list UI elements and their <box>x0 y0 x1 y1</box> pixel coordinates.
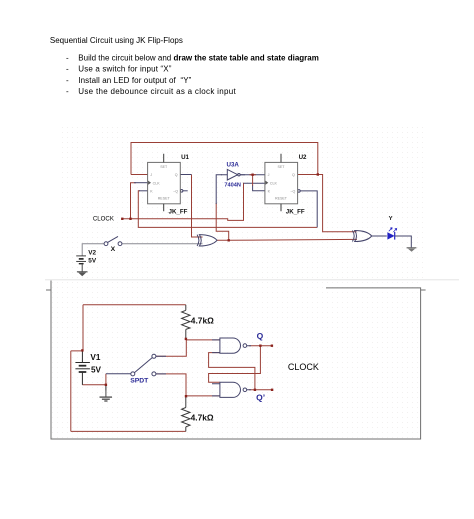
svg-text:JK_FF: JK_FF <box>286 208 305 215</box>
svg-text:SET: SET <box>278 165 286 169</box>
svg-text:JK_FF: JK_FF <box>169 208 188 215</box>
svg-text:5V: 5V <box>88 258 97 265</box>
svg-text:-: - <box>66 87 69 96</box>
svg-text:Use the debounce circuit as a: Use the debounce circuit as a clock inpu… <box>78 87 236 96</box>
svg-text:Use a switch for input “X”: Use a switch for input “X” <box>78 65 171 74</box>
svg-text:4.7kΩ: 4.7kΩ <box>191 315 214 325</box>
svg-text:U3A: U3A <box>227 162 240 169</box>
svg-text:-: - <box>66 53 69 62</box>
svg-text:X: X <box>111 246 116 253</box>
svg-text:~Q: ~Q <box>173 189 178 193</box>
svg-text:Y: Y <box>389 216 393 222</box>
svg-text:U2: U2 <box>299 154 307 161</box>
svg-text:5V: 5V <box>91 366 102 375</box>
svg-text:-: - <box>66 76 69 85</box>
svg-text:RESET: RESET <box>275 196 288 200</box>
svg-text:Q’: Q’ <box>256 393 265 403</box>
svg-text:CLOCK: CLOCK <box>93 216 114 223</box>
svg-text:CLOCK: CLOCK <box>288 362 319 372</box>
svg-text:J: J <box>268 173 270 177</box>
svg-text:J: J <box>150 173 152 177</box>
svg-text:Sequential Circuit using JK Fl: Sequential Circuit using JK Flip-Flops <box>50 36 183 45</box>
svg-text:V2: V2 <box>88 250 96 257</box>
svg-text:U1: U1 <box>181 154 189 161</box>
svg-text:Q: Q <box>175 173 178 177</box>
svg-text:V1: V1 <box>90 353 100 362</box>
svg-text:CLK: CLK <box>153 181 161 185</box>
svg-text:-: - <box>66 65 69 74</box>
svg-text:Install an LED for output of: Install an LED for output of “Y” <box>78 76 191 85</box>
svg-text:RESET: RESET <box>158 196 171 200</box>
svg-text:SPDT: SPDT <box>130 377 149 384</box>
svg-text:Build the circuit below and dr: Build the circuit below and draw the sta… <box>78 53 319 62</box>
svg-text:CLK: CLK <box>270 181 278 185</box>
svg-text:SET: SET <box>160 165 168 169</box>
svg-text:Q: Q <box>292 173 295 177</box>
svg-text:Q: Q <box>257 331 264 341</box>
svg-text:4.7kΩ: 4.7kΩ <box>191 413 214 423</box>
svg-text:7404N: 7404N <box>224 183 240 189</box>
svg-text:~Q: ~Q <box>290 189 295 193</box>
